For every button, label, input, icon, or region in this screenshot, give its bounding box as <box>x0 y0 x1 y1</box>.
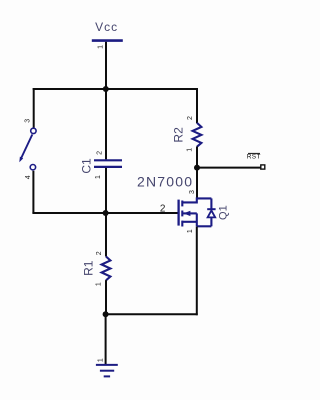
transistor Q1 (N-MOSFET) <box>179 198 212 226</box>
wire mid lower <box>105 168 107 257</box>
wire R1 to bottom junction <box>105 280 107 314</box>
resistor R2 <box>193 123 202 147</box>
switch SW1 <box>19 128 36 170</box>
terminal RST <box>261 165 265 169</box>
wire R2 to drain <box>196 147 198 199</box>
svg-text:C1: C1 <box>80 158 94 174</box>
svg-text:2N7000: 2N7000 <box>137 173 193 189</box>
ground <box>96 365 118 377</box>
svg-text:4: 4 <box>25 175 32 179</box>
wire bottom rail <box>106 313 198 315</box>
wire left upper <box>33 88 35 128</box>
wire Vcc stub <box>105 42 107 89</box>
wire top rail <box>33 88 197 90</box>
node junction RST <box>194 165 200 171</box>
svg-text:1: 1 <box>98 45 105 49</box>
node junction gate rail <box>103 210 109 216</box>
svg-text:1: 1 <box>96 282 103 286</box>
wire right upper <box>196 88 198 123</box>
wire left lower <box>32 171 34 213</box>
svg-text:1: 1 <box>95 175 102 179</box>
svg-text:1: 1 <box>98 358 105 362</box>
wire RST <box>197 167 261 169</box>
wire mid upper <box>105 89 107 159</box>
svg-text:R1: R1 <box>82 260 96 276</box>
svg-text:R2: R2 <box>172 127 186 143</box>
wire gate rail <box>32 212 177 214</box>
capacitor C1 <box>94 160 122 167</box>
svg-text:2: 2 <box>187 116 194 120</box>
svg-text:RST: RST <box>247 154 261 161</box>
power symbol Vcc <box>92 20 123 41</box>
body diode of Q1 <box>207 198 215 226</box>
svg-text:Vcc: Vcc <box>95 20 118 34</box>
svg-text:2: 2 <box>96 151 103 155</box>
svg-text:1: 1 <box>187 229 194 233</box>
svg-text:Q1: Q1 <box>218 205 230 220</box>
svg-text:3: 3 <box>189 190 196 194</box>
wire source down <box>196 227 198 316</box>
node bottom junction <box>103 311 109 317</box>
resistor R1 <box>102 257 111 281</box>
svg-text:2: 2 <box>96 251 103 255</box>
node junction top rail <box>103 86 109 92</box>
svg-text:3: 3 <box>25 119 32 123</box>
wire ground stub <box>105 313 107 364</box>
svg-text:2: 2 <box>160 204 166 215</box>
net label RST <box>247 153 261 160</box>
svg-text:1: 1 <box>186 148 193 152</box>
